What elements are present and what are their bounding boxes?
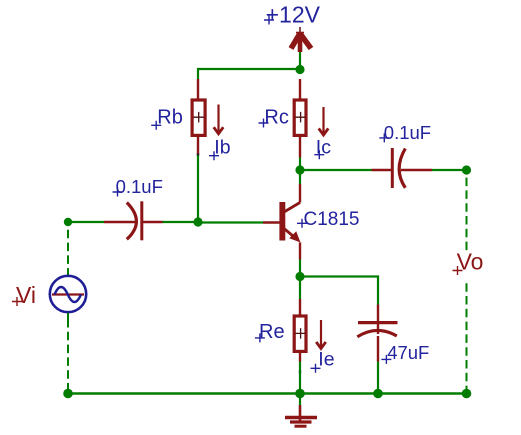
node: Vi top dot — [64, 218, 72, 226]
wire: input cap to base junction (green) — [163, 221, 199, 223]
wire: dashed Vo vertical (lower) — [466, 283, 468, 391]
svg-text:+12V: +12V — [266, 1, 321, 27]
current arrow Ie — [316, 320, 326, 349]
ground symbol — [285, 396, 317, 426]
node: ground junction dot — [295, 389, 305, 399]
label Rc — [259, 106, 289, 128]
wire: green from Re to ground junction — [299, 362, 301, 394]
node: input junction dot — [193, 217, 202, 226]
svg-text:Ie: Ie — [318, 349, 334, 371]
wire: output cap to Vo node (green) — [432, 169, 467, 171]
label 0.1uF (input cap) — [113, 176, 163, 197]
label Re — [255, 321, 285, 343]
resistor Re — [294, 316, 306, 351]
wire: Re bottom lead maroon + pin tick — [299, 352, 301, 374]
capacitor C in 0.1uF leads (maroon) — [104, 221, 163, 224]
wire: 47uF bottom lead maroon — [377, 336, 379, 362]
wire: green from 47uF to bottom rail — [377, 362, 379, 394]
wire: green vertical from Rb to input junction — [197, 156, 199, 223]
wire: Vi top pin stub green — [67, 268, 69, 275]
current arrow Ic — [319, 107, 329, 135]
wire: dashed Vo vertical (upper) — [466, 178, 468, 251]
wire: dashed Vi vertical upper — [67, 230, 69, 275]
svg-text:47uF: 47uF — [387, 342, 429, 363]
wire: input row green from Vi node to input cap — [68, 221, 104, 223]
wire: base wire green from junction to transistor — [198, 221, 263, 223]
label Rb — [151, 107, 183, 130]
wire: Vi bottom pin stub green — [67, 313, 69, 319]
source Vi (AC signal generator) — [50, 276, 86, 312]
capacitor C out 0.1uF leads (maroon) — [372, 169, 433, 172]
node: supply junction dot — [295, 65, 304, 74]
wire: Rc bottom lead (maroon) — [299, 135, 301, 158]
wire: collector lead maroon up to junction — [299, 184, 301, 203]
resistor Rc — [294, 100, 306, 135]
svg-text:0.1uF: 0.1uF — [384, 122, 431, 143]
node: emitter junction dot — [295, 272, 304, 281]
wire: collector green stub — [299, 174, 301, 184]
label 47uF — [381, 342, 429, 364]
capacitor C in 0.1uF plates — [127, 201, 142, 240]
wire: base lead maroon — [263, 221, 280, 223]
label Ic — [314, 137, 331, 160]
svg-text:0.1uF: 0.1uF — [116, 176, 163, 197]
wire: Re top lead maroon — [299, 299, 301, 316]
wire: green from emitter junction down to Re — [299, 277, 301, 300]
wire: emitter lead maroon down — [299, 243, 301, 260]
node: bottom-right dot — [462, 389, 472, 399]
wire: top horizontal from Rb top to supply junction — [198, 69, 300, 79]
wire: emitter junction to 47uF branch (green) — [300, 277, 378, 305]
resistor Rb — [192, 100, 205, 135]
wire: dashed Vi vertical lower — [67, 319, 69, 391]
capacitor C out 0.1uF plates — [392, 148, 405, 188]
wire: collector junction to output capacitor (green) — [300, 169, 372, 171]
capacitor Ce 47uF top lead: maroon — [377, 305, 379, 335]
wire: Rb top lead (maroon) — [197, 79, 199, 100]
wire: bottom rail green — [68, 392, 467, 394]
node: bottom-left dot — [63, 389, 73, 399]
svg-text:Rc: Rc — [264, 106, 288, 128]
label Ib — [209, 137, 231, 161]
wire: emitter green to emitter junction — [299, 260, 301, 277]
label Ie — [311, 349, 335, 373]
power supply +12V arrow symbol — [291, 27, 311, 52]
node: 47uF bottom dot — [373, 389, 383, 399]
label Vi — [12, 282, 36, 308]
node: Vo top junction dot — [462, 165, 471, 174]
capacitor Ce 47uF plates — [357, 323, 397, 337]
label +12V — [264, 1, 321, 27]
label Vo — [453, 249, 484, 275]
label C1815 — [297, 209, 360, 230]
wire: Rc top lead (maroon) — [299, 79, 301, 100]
wire: green vertical Rc lead to collector junction — [299, 158, 301, 171]
wire: Rb bottom lead (maroon) + pin tick — [197, 135, 199, 156]
svg-text:Vi: Vi — [16, 282, 36, 308]
node: collector junction dot — [295, 165, 304, 174]
label 0.1uF (output cap) — [379, 122, 431, 143]
svg-text:C1815: C1815 — [304, 209, 360, 230]
current arrow Ib — [214, 105, 224, 134]
wire: supply vertical stub — [299, 51, 301, 69]
svg-text:Re: Re — [259, 321, 285, 343]
transistor Q1 C1815 (NPN) — [279, 202, 300, 243]
